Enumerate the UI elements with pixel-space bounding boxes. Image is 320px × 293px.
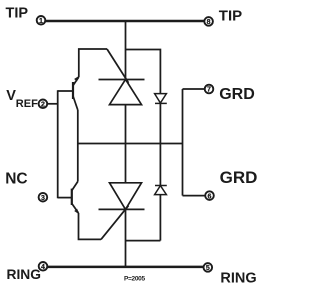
diode D2 triangle (155, 186, 167, 195)
wire pin6 stub (183, 195, 205, 197)
transistor Q1 collector diagonal (73, 96, 78, 110)
transistor Q1 base lead (58, 90, 73, 92)
wire bottom-right horizontal link (126, 240, 161, 242)
thyristor lower: gate diagonal (101, 206, 129, 240)
wire Q2 emitter down and right (79, 213, 102, 239)
thyristor upper: triangle (110, 79, 142, 104)
transistor Q2 emitter arrowhead (74, 209, 79, 215)
wire Vref rail vertical (57, 90, 59, 198)
node GRD top label (219, 86, 255, 103)
pin 7 (205, 85, 214, 94)
svg-text:6: 6 (208, 193, 212, 200)
transistor Q1 emitter arrowhead (74, 76, 79, 81)
node TIP left label (6, 6, 29, 22)
svg-text:8: 8 (207, 19, 211, 26)
pin 2 (39, 100, 48, 109)
transistor Q2 base bar (71, 189, 73, 205)
svg-text:GRD: GRD (220, 168, 258, 187)
diode D1 cathode bar (155, 102, 167, 104)
wire top diode feed (126, 50, 161, 94)
wire center vertical middle segment (125, 105, 127, 183)
wire pin2 stub (48, 103, 59, 105)
wire D2 down to bottom link (159, 195, 161, 241)
wire middle to D2 (159, 144, 161, 186)
thyristor lower: cathode bar (99, 208, 145, 210)
svg-text:1: 1 (39, 18, 43, 25)
wire middle horizontal (78, 143, 183, 145)
transistor Q2 collector diagonal (72, 182, 78, 191)
transistor Q2 base lead (58, 197, 72, 199)
transistor Q1 base bar (72, 82, 74, 99)
node NC label (5, 171, 27, 188)
wire top rail TIP (46, 20, 204, 23)
node GRD bottom label (220, 168, 258, 187)
pin 3 (39, 193, 48, 202)
wire upper gate path from Q1 emitter corner (79, 49, 107, 77)
pin 1 (37, 16, 46, 25)
node VREF label (6, 88, 38, 110)
svg-text:5: 5 (206, 265, 210, 272)
pin 5 (204, 263, 213, 272)
svg-text:TIP: TIP (219, 7, 242, 24)
thyristor upper: cathode bar (99, 79, 145, 81)
revision text (124, 275, 145, 282)
wire center vertical bottom segment (125, 209, 127, 267)
svg-text:2: 2 (41, 102, 45, 109)
thyristor lower: triangle (110, 183, 142, 210)
node TIP right label (219, 7, 242, 24)
pin 4 (39, 262, 48, 271)
wire bottom rail RING (48, 266, 203, 269)
diode D1 triangle (155, 94, 167, 103)
svg-text:GRD: GRD (219, 86, 255, 103)
svg-text:TIP: TIP (6, 6, 29, 22)
svg-text:7: 7 (207, 87, 211, 94)
wire collector vertical shared (77, 110, 79, 182)
wire center vertical top segment (125, 21, 127, 80)
node RING left label (7, 267, 42, 282)
wire D1 to middle horizontal (159, 103, 161, 143)
thyristor upper: gate diagonal (107, 49, 129, 83)
svg-text:NC: NC (5, 171, 27, 188)
svg-text:4: 4 (41, 264, 45, 271)
wire right ground vertical (182, 89, 184, 196)
transistor Q2 emitter diagonal (72, 204, 79, 214)
svg-text:3: 3 (41, 195, 45, 202)
svg-text:RING: RING (7, 267, 42, 282)
pin 8 (204, 17, 213, 26)
svg-text:V: V (6, 88, 16, 104)
diode D2 cathode bar (155, 185, 167, 187)
pin 6 (205, 191, 214, 200)
transistor Q1 emitter diagonal (73, 77, 79, 86)
svg-text:P=2005: P=2005 (124, 275, 145, 282)
svg-text:REF: REF (16, 98, 38, 110)
svg-text:RING: RING (220, 271, 256, 287)
node RING right label (220, 271, 256, 287)
wire pin7 stub (183, 88, 205, 90)
